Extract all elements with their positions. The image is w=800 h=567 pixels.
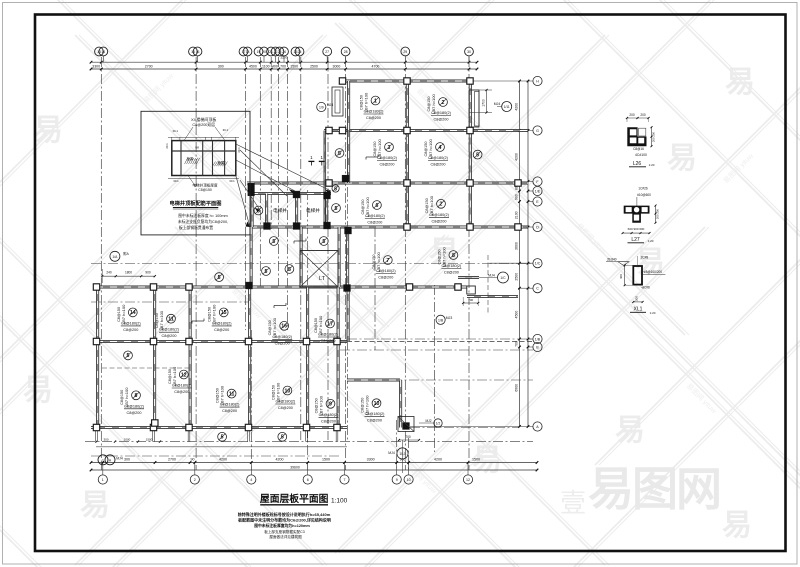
svg-text:易: 易 (667, 142, 697, 175)
svg-text:易: 易 (722, 509, 752, 542)
svg-text:C8@180(2): C8@180(2) (318, 333, 338, 337)
svg-text:16: 16 (281, 324, 287, 330)
svg-text:C8@180(2): C8@180(2) (172, 384, 192, 388)
svg-text:700: 700 (280, 64, 286, 68)
svg-text:C8@200: C8@200 (214, 328, 229, 332)
leader lines (236, 144, 331, 227)
svg-text:14: 14 (130, 310, 136, 316)
svg-text:易: 易 (33, 114, 63, 147)
svg-text:16: 16 (196, 50, 200, 54)
svg-text:26: 26 (298, 50, 302, 54)
step dims (458, 255, 488, 313)
svg-text:5: 5 (288, 267, 291, 273)
svg-text:2500: 2500 (310, 64, 318, 68)
svg-text:15: 15 (191, 50, 195, 54)
svg-text:13: 13 (97, 50, 101, 54)
svg-text:G: G (536, 129, 539, 133)
svg-text:1/2: 1/2 (436, 422, 441, 426)
svg-text:1/B: 1/B (438, 318, 444, 322)
svg-text:30.1: 30.1 (165, 143, 169, 149)
bottom axis circles and dimensions (90, 437, 539, 484)
svg-text:400: 400 (619, 274, 623, 279)
svg-text:C8@150: C8@150 (271, 385, 275, 400)
svg-text:C8@180(2): C8@180(2) (442, 264, 462, 268)
svg-text:C8@150: C8@150 (424, 141, 428, 156)
svg-text:C8@200: C8@200 (379, 163, 394, 167)
svg-text:1/B: 1/B (535, 338, 541, 342)
svg-text:板厚: 板厚 (187, 156, 194, 161)
svg-text:易: 易 (23, 374, 53, 407)
svg-text:2C#6: 2C#6 (642, 285, 650, 289)
svg-text:C8@150: C8@150 (361, 398, 365, 413)
svg-text:600 900 600: 600 900 600 (628, 227, 645, 231)
svg-text:1C#26: 1C#26 (638, 187, 648, 191)
svg-text:C8@150: C8@150 (120, 390, 124, 405)
svg-text:C8@180(2): C8@180(2) (365, 214, 385, 218)
svg-text:H: H (536, 80, 539, 84)
vertical axis dash-dot lines (101, 57, 469, 470)
svg-text:14: 14 (101, 50, 105, 54)
svg-text:C8@150: C8@150 (155, 313, 159, 328)
svg-text:2: 2 (442, 100, 445, 106)
svg-text:15: 15 (221, 310, 227, 316)
svg-text:6: 6 (375, 203, 378, 209)
svg-text:30.1: 30.1 (237, 147, 241, 153)
svg-text:C8@200双层: C8@200双层 (192, 122, 215, 127)
svg-text:21: 21 (269, 50, 273, 54)
svg-text:C8@200: C8@200 (433, 118, 448, 122)
main title (260, 492, 348, 505)
svg-text:28: 28 (344, 50, 348, 54)
svg-text:3: 3 (388, 145, 391, 151)
svg-text:C8@180(2): C8@180(2) (319, 413, 339, 417)
svg-text:17: 17 (327, 321, 333, 327)
svg-text:2500: 2500 (515, 273, 519, 281)
svg-text:5: 5 (334, 186, 337, 192)
svg-text:易: 易 (725, 66, 755, 99)
svg-text:240: 240 (106, 271, 112, 275)
svg-text:MJ2: MJ2 (425, 419, 431, 423)
svg-text:200: 200 (640, 113, 646, 117)
svg-text:3300: 3300 (92, 64, 100, 68)
svg-text:5: 5 (476, 152, 479, 158)
svg-text:C8@150: C8@150 (168, 369, 172, 384)
svg-text:C8@150: C8@150 (208, 307, 212, 322)
svg-text:C8@150: C8@150 (268, 320, 272, 335)
svg-text:5: 5 (322, 239, 325, 245)
svg-text:1:20: 1:20 (649, 163, 655, 167)
svg-text:5: 5 (218, 275, 221, 281)
svg-text:27: 27 (325, 50, 329, 54)
svg-text:5: 5 (281, 435, 284, 441)
svg-text:D: D (536, 226, 539, 230)
svg-text:30.1: 30.1 (172, 129, 178, 133)
svg-text:12: 12 (181, 372, 187, 378)
svg-text:C8@200: C8@200 (366, 116, 381, 120)
svg-text:电梯井: 电梯井 (273, 207, 287, 214)
svg-text:C8@200: C8@200 (431, 219, 446, 223)
svg-text:2700: 2700 (168, 458, 176, 462)
svg-text:C8@180(2): C8@180(2) (377, 156, 397, 160)
small dims left (101, 269, 156, 283)
svg-text:板上部支座钢筋据实配C3: 板上部支座钢筋据实配C3 (264, 529, 305, 534)
LT stair box with cross (300, 251, 338, 288)
svg-text:3600: 3600 (515, 242, 519, 250)
svg-text:4200: 4200 (515, 153, 519, 161)
svg-text:1500: 1500 (146, 437, 153, 441)
svg-text:C8@200: C8@200 (161, 334, 176, 338)
svg-text:板上部钢筋贯通布置: 板上部钢筋贯通布置 (179, 225, 213, 230)
svg-text:C8@150: C8@150 (437, 249, 441, 264)
svg-text:1:20: 1:20 (648, 239, 654, 243)
svg-text:C8@150: C8@150 (427, 96, 431, 111)
svg-text:C8@180(2): C8@180(2) (431, 111, 451, 115)
svg-text:C8@16: C8@16 (633, 147, 644, 151)
svg-text:1500: 1500 (322, 458, 330, 462)
svg-text:C8@150: C8@150 (372, 254, 376, 269)
svg-text:90: 90 (191, 458, 195, 462)
horizontal axis dash-dot lines (85, 264, 533, 457)
svg-text:C8@200: C8@200 (174, 390, 189, 394)
detail XL1 (606, 256, 665, 316)
svg-text:C8@200: C8@200 (278, 406, 293, 410)
svg-text:30.1: 30.1 (229, 179, 235, 183)
svg-text:C8@150: C8@150 (373, 141, 377, 156)
svg-text:C8@150: C8@150 (315, 398, 319, 413)
svg-text:C8@150: C8@150 (198, 188, 212, 192)
beams double lines (91, 80, 533, 447)
svg-text:300: 300 (218, 64, 224, 68)
svg-text:C8@180(2): C8@180(2) (376, 269, 396, 273)
svg-text:29: 29 (403, 50, 407, 54)
svg-text:4700: 4700 (372, 64, 380, 68)
svg-text:未标注支座负筋均为C8@200,: 未标注支座负筋均为C8@200, (178, 219, 228, 224)
svg-text:1700: 1700 (481, 99, 485, 107)
svg-text:4500: 4500 (249, 64, 257, 68)
svg-text:LT: LT (319, 276, 326, 282)
svg-text:1:20: 1:20 (650, 311, 656, 315)
svg-text:24: 24 (282, 50, 286, 54)
svg-text:1/11: 1/11 (504, 105, 510, 109)
svg-text:900: 900 (145, 271, 151, 275)
svg-text:C8@150: C8@150 (216, 388, 220, 403)
svg-text:电梯井顶板配筋平面图: 电梯井顶板配筋平面图 (170, 199, 222, 207)
svg-text:C8@200: C8@200 (222, 409, 237, 413)
svg-text:C8@150: C8@150 (117, 307, 121, 322)
svg-text:2C#8: 2C#8 (641, 256, 649, 260)
svg-text:200: 200 (635, 296, 639, 301)
svg-text:5: 5 (338, 151, 341, 157)
svg-text:电梯井: 电梯井 (306, 207, 320, 214)
svg-text:5: 5 (335, 206, 338, 212)
svg-text:4200: 4200 (276, 458, 284, 462)
svg-text:C8@180(2): C8@180(2) (429, 213, 449, 217)
svg-text:C8@180(2): C8@180(2) (124, 404, 144, 408)
svg-text:900: 900 (515, 194, 519, 200)
svg-text:10: 10 (285, 388, 291, 394)
detail L26 (626, 113, 656, 167)
svg-text:5: 5 (127, 353, 130, 359)
svg-text:MJ4: MJ4 (116, 457, 123, 461)
svg-text:200 200: 200 200 (652, 132, 656, 143)
room slab labels (117, 92, 482, 441)
svg-text:C: C (536, 287, 539, 291)
svg-text:30.1: 30.1 (173, 179, 179, 183)
svg-text:1/E: 1/E (535, 190, 541, 194)
svg-text:4200: 4200 (219, 458, 227, 462)
right axis circles (410, 76, 542, 431)
notes under title (238, 511, 331, 539)
svg-text:700: 700 (405, 435, 411, 439)
svg-text:1: 1 (374, 98, 377, 104)
svg-text:MJ4: MJ4 (494, 102, 501, 106)
svg-text:屋面层板平面图: 屋面层板平面图 (260, 492, 329, 505)
svg-text:400: 400 (272, 64, 278, 68)
svg-text:C8@200: C8@200 (367, 419, 382, 423)
svg-text:易图网: 易图网 (588, 463, 720, 515)
svg-text:200: 200 (629, 113, 635, 117)
svg-text:39600: 39600 (290, 465, 300, 469)
svg-text:4: 4 (250, 478, 252, 482)
svg-text:C8@200: C8@200 (321, 419, 336, 423)
svg-text:C8@200: C8@200 (275, 341, 290, 345)
svg-text:12: 12 (466, 478, 470, 482)
svg-text:板配筋图中未注明分布筋均为C6@200,详见结构说明: 板配筋图中未注明分布筋均为C6@200,详见结构说明 (238, 517, 331, 523)
svg-text:除特殊注明外楼板砼标号按设计说明执行h=65,440m: 除特殊注明外楼板砼标号按设计说明执行h=65,440m (238, 511, 331, 517)
svg-text:4C#100: 4C#100 (635, 153, 647, 157)
svg-text:9: 9 (329, 402, 332, 408)
svg-text:6900: 6900 (515, 384, 519, 392)
svg-text:1800: 1800 (125, 271, 132, 275)
svg-text:L26: L26 (633, 161, 642, 167)
svg-text:C8@180(2): C8@180(2) (159, 328, 179, 332)
column squares (93, 78, 521, 431)
svg-text:10: 10 (407, 478, 411, 482)
svg-text:1/C: 1/C (535, 262, 541, 266)
svg-text:XL1: XL1 (634, 307, 643, 313)
svg-text:200 200: 200 200 (656, 209, 660, 220)
svg-text:C8@180(2): C8@180(2) (212, 321, 232, 325)
svg-text:5: 5 (221, 435, 224, 441)
svg-text:易: 易 (615, 414, 645, 447)
svg-text:电梯井顶板厚度: 电梯井顶板厚度 (192, 183, 218, 188)
svg-text:板厚: 板厚 (218, 160, 225, 165)
svg-text:C8@180(2): C8@180(2) (276, 400, 296, 404)
svg-text:7: 7 (386, 258, 389, 264)
detail L27 (622, 187, 660, 244)
svg-text:3000: 3000 (333, 64, 341, 68)
svg-text:C8@200: C8@200 (444, 271, 459, 275)
svg-text:易: 易 (80, 489, 110, 522)
svg-text:700: 700 (515, 341, 519, 347)
svg-text:C8@200: C8@200 (320, 339, 335, 343)
svg-text:2: 2 (440, 202, 443, 208)
svg-text:1: 1 (102, 458, 104, 462)
svg-text:8: 8 (135, 393, 138, 399)
svg-text:C8@200: C8@200 (430, 163, 445, 167)
svg-text:C8@150: C8@150 (314, 318, 318, 333)
svg-text:#10@600: #10@600 (637, 193, 651, 197)
svg-text:#8@100/200: #8@100/200 (644, 270, 663, 274)
hook marks (192, 155, 378, 324)
svg-text:1/A: 1/A (112, 255, 118, 259)
svg-text:MJ4: MJ4 (388, 451, 395, 455)
svg-text:8: 8 (452, 253, 455, 259)
svg-text:图中未标注板厚度均为h=120mm: 图中未标注板厚度均为h=120mm (254, 523, 310, 528)
svg-text:4: 4 (439, 145, 442, 151)
svg-text:1:100: 1:100 (331, 498, 348, 505)
top axis circles and dimension rows (90, 47, 479, 70)
svg-text:C8@150: C8@150 (361, 199, 365, 214)
ramp detail (398, 417, 420, 442)
svg-text:壹: 壹 (560, 488, 586, 518)
elevator roof detail box (141, 111, 250, 235)
svg-text:C8@180(2): C8@180(2) (365, 412, 385, 416)
svg-text:1: 1 (102, 478, 104, 482)
svg-text:C8@150: C8@150 (360, 95, 364, 110)
svg-text:2500: 2500 (280, 56, 287, 60)
svg-text:1/9: 1/9 (319, 106, 324, 110)
svg-text:300: 300 (103, 437, 108, 441)
svg-text:300: 300 (124, 458, 130, 462)
svg-text:C8@180(2): C8@180(2) (428, 156, 448, 160)
svg-text:1500: 1500 (472, 458, 480, 462)
dim 1700 (469, 89, 492, 114)
svg-text:9: 9 (396, 478, 398, 482)
svg-text:C8@180(2): C8@180(2) (121, 321, 141, 325)
svg-text:C8@180(2): C8@180(2) (220, 403, 240, 407)
svg-text:30: 30 (467, 50, 471, 54)
svg-text:2: 2 (194, 478, 196, 482)
svg-text:XX楼梯间顶板: XX楼梯间顶板 (191, 116, 216, 122)
svg-text:C8@200: C8@200 (378, 276, 393, 280)
svg-text:C8@150: C8@150 (425, 198, 429, 213)
svg-text:屋面做法详见建筑图: 屋面做法详见建筑图 (269, 534, 302, 539)
svg-text:1100: 1100 (262, 64, 270, 68)
svg-text:MJ3: MJ3 (446, 316, 453, 320)
svg-text:5: 5 (265, 269, 268, 275)
svg-text:C8@200: C8@200 (123, 328, 138, 332)
svg-text:7: 7 (344, 478, 346, 482)
svg-text:2000: 2000 (124, 437, 131, 441)
svg-text:5: 5 (272, 239, 275, 245)
svg-text:易: 易 (635, 246, 665, 279)
svg-text:C8@180(2): C8@180(2) (272, 335, 292, 339)
svg-text:18: 18 (246, 50, 250, 54)
svg-text:1500: 1500 (290, 64, 298, 68)
svg-text:4200: 4200 (515, 103, 519, 111)
svg-text:4200: 4200 (434, 458, 442, 462)
svg-text:700: 700 (468, 298, 473, 302)
svg-text:11: 11 (168, 317, 174, 323)
svg-text:4500: 4500 (515, 311, 519, 319)
svg-text:30.1: 30.1 (223, 128, 229, 132)
svg-text:2700: 2700 (145, 64, 153, 68)
svg-text:MJ4: MJ4 (327, 103, 334, 107)
svg-text:L27: L27 (631, 237, 640, 243)
svg-text:10: 10 (374, 401, 380, 407)
svg-text:附A: 附A (123, 251, 129, 256)
svg-text:2100: 2100 (515, 211, 519, 219)
svg-text:C8@200: C8@200 (126, 411, 141, 415)
svg-text:1/C: 1/C (500, 276, 506, 280)
svg-text:MJ4: MJ4 (488, 274, 495, 278)
svg-text:C8@200: C8@200 (367, 221, 382, 225)
elevator shaft rooms (273, 207, 320, 214)
section 1-1 marks (308, 155, 324, 166)
svg-text:39.840: 39.840 (607, 258, 617, 262)
mid-plan bubbles (98, 102, 512, 474)
svg-text:U8: U8 (195, 146, 199, 150)
svg-text:23: 23 (278, 50, 282, 54)
svg-text:19: 19 (257, 50, 261, 54)
svg-text:C8@180(2): C8@180(2) (364, 110, 384, 114)
svg-text:6: 6 (307, 478, 309, 482)
svg-text:图中未标注板厚度 h= 100mm: 图中未标注板厚度 h= 100mm (178, 213, 227, 218)
svg-text:3300: 3300 (367, 458, 375, 462)
svg-text:20: 20 (262, 50, 266, 54)
svg-text:11: 11 (229, 391, 235, 397)
